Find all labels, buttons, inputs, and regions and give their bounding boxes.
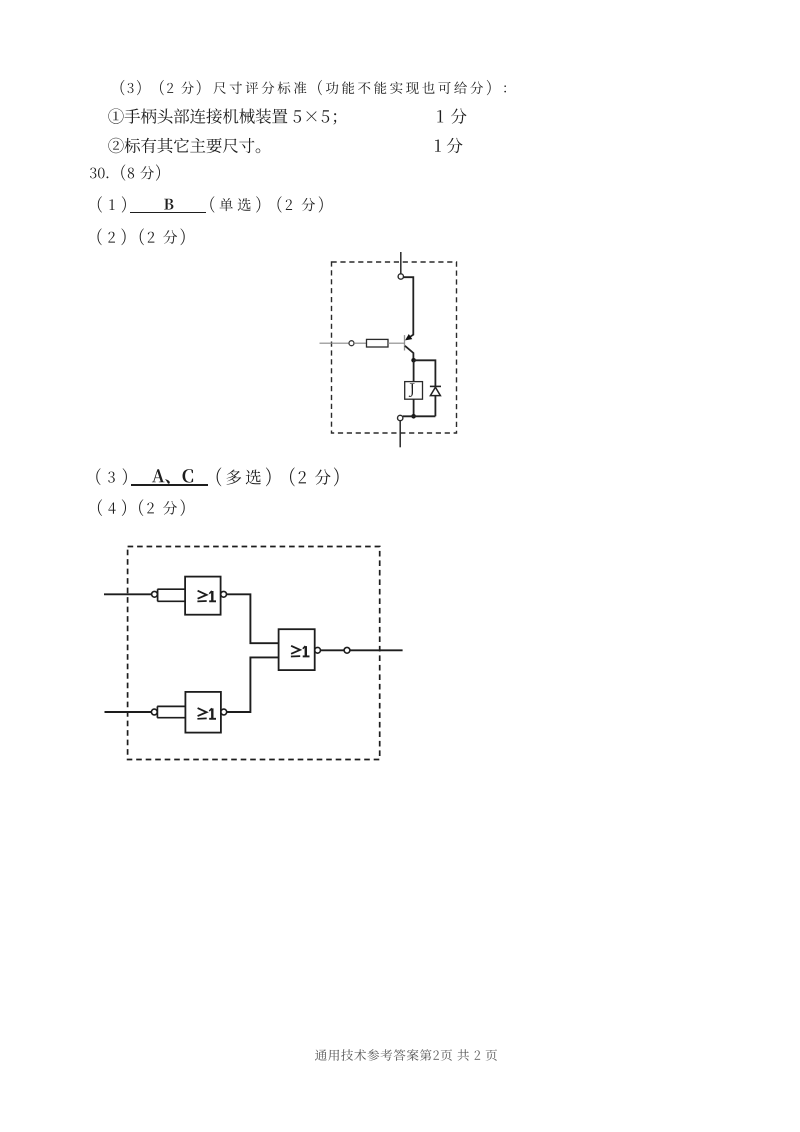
diode D1 cathode bar [430, 385, 441, 387]
junction node: collector/relay/diode top [411, 358, 416, 363]
OR gate U3 (middle, >=1) [279, 629, 315, 670]
text line 7: (3) A C 多选 [96, 468, 127, 485]
wire: split to both inputs of gate U1 [157, 589, 185, 601]
wire: resistor to base [388, 342, 405, 344]
text line 4: 30. (8分) [90, 168, 108, 179]
transistor Q1 emitter arrow (points into base bar) [406, 335, 412, 340]
terminal: top open circle [398, 274, 403, 279]
OR gate U1 (top, >=1) [185, 577, 221, 615]
dashed enclosure box (relay driver) [332, 262, 457, 433]
diode D1 triangle (apex up) [430, 387, 440, 395]
relay coil label J [409, 383, 415, 397]
wire: relay coil to bottom node [413, 399, 415, 416]
text line 1: (3) 2分 criteria [121, 80, 201, 95]
wire: circle to resistor (gray) [354, 342, 366, 344]
gate U3 label >=1 [291, 646, 300, 654]
wire: bottom lead going out [399, 421, 401, 448]
answer underline (1) [130, 212, 206, 214]
terminal: base input open circle [349, 341, 354, 346]
text line 5: (1) B 单选 [98, 196, 126, 212]
gate U2 label >=1 [198, 708, 207, 716]
wire: U1 output to U3 input 1 [227, 594, 279, 643]
output bubble U2 [221, 709, 227, 715]
footer page label [315, 1049, 497, 1061]
text line 6: (2) 2分 [98, 228, 126, 245]
text line 3: item 2 [108, 138, 260, 153]
junction node: bottom [411, 414, 416, 419]
wire: top supply lead [400, 252, 402, 274]
resistor R1 (base resistor) [367, 339, 389, 347]
wire: output lead out of box [350, 649, 403, 651]
terminal circle on output [344, 647, 350, 653]
wire: emitter diagonal and down [405, 346, 414, 359]
inverter bubble at input A [152, 591, 158, 597]
terminal: bottom open circle [398, 415, 403, 420]
answer underline (3) [131, 484, 209, 486]
wire: bottom horizontal [403, 415, 436, 417]
text line 2: item 1 [108, 108, 287, 123]
wire: collector from top terminal [404, 277, 414, 337]
wire: U3 output segment [321, 649, 345, 651]
text line 8: (4) 2分 [98, 499, 126, 516]
wire: input B lead [105, 711, 152, 713]
inverter bubble at input B [151, 709, 157, 715]
gate U1 label >=1 [198, 591, 207, 599]
transistor Q1 base bar [404, 335, 406, 350]
wire: diode branch (top, right, down) [414, 360, 436, 416]
wire: U2 output to U3 input 2 [227, 657, 279, 712]
OR gate U2 (bottom, >=1) [185, 692, 221, 733]
dashed enclosure box (logic diagram) [128, 547, 380, 760]
wire: down to relay coil [413, 360, 415, 381]
output bubble U1 [221, 591, 227, 597]
output bubble U3 [315, 647, 321, 653]
wire: split to both inputs of gate U2 [157, 706, 185, 717]
wire: input A lead [104, 593, 152, 595]
wire: base input (gray) left segment [320, 342, 349, 344]
relay coil J box [405, 382, 423, 400]
